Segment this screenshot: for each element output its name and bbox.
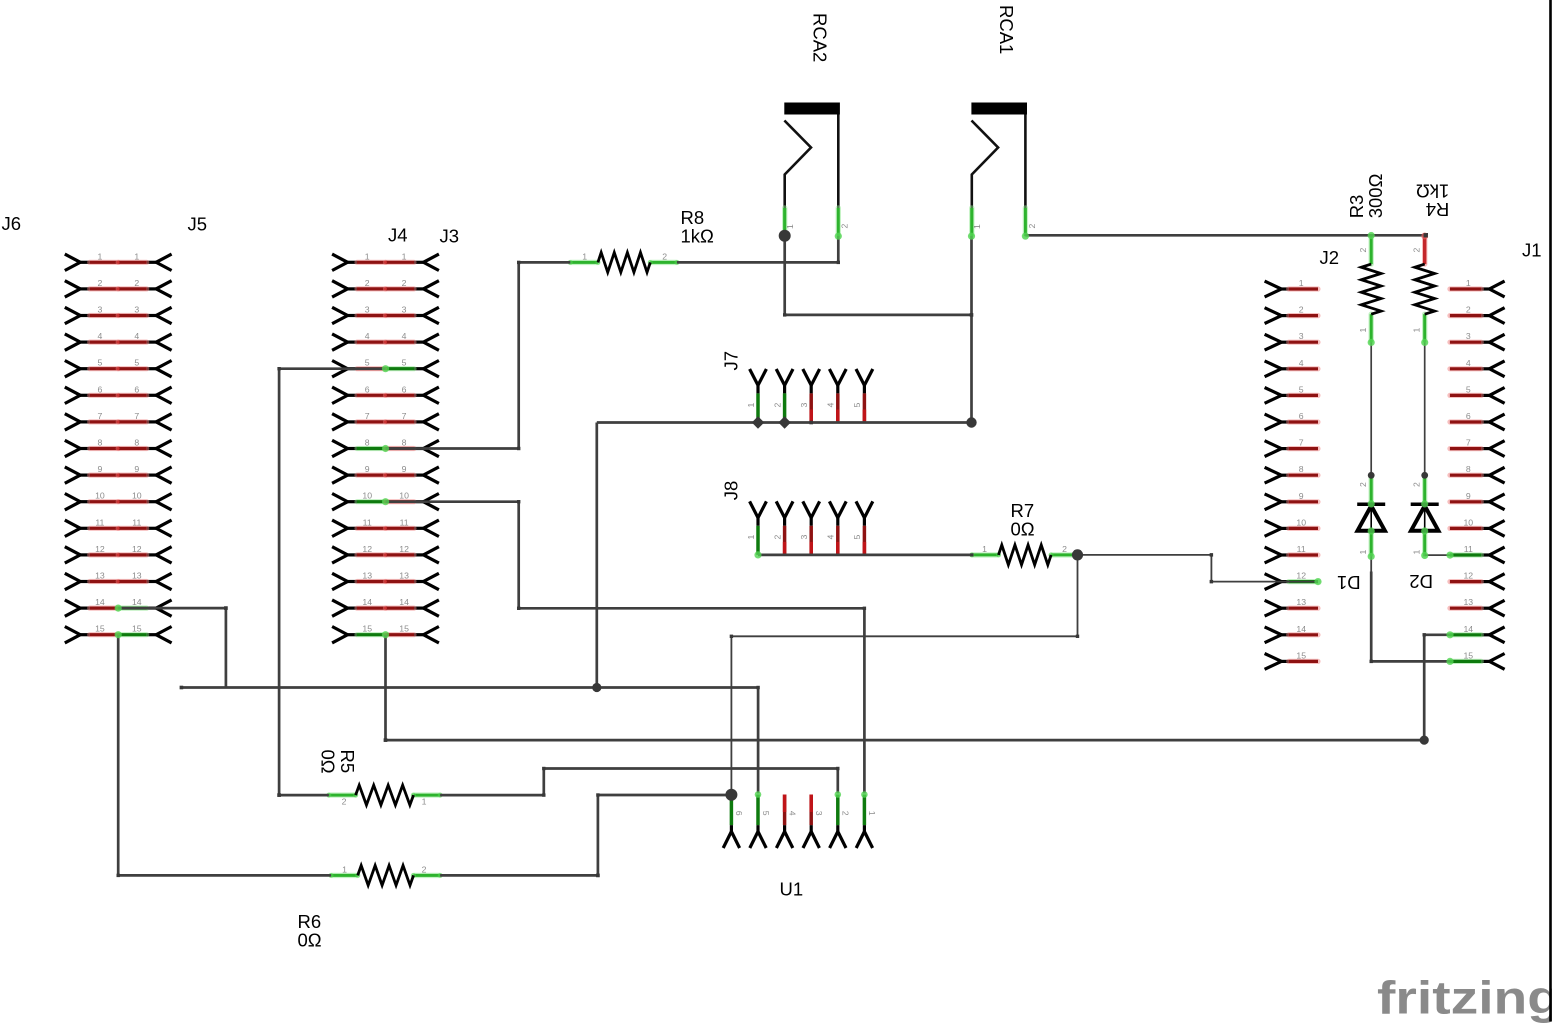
junction J7 pin2 diamond xyxy=(778,416,790,428)
svg-text:fritzing: fritzing xyxy=(1377,972,1552,1024)
svg-text:4: 4 xyxy=(1299,358,1304,368)
diode D1 xyxy=(1368,475,1373,504)
connector J6 pin 6 / connector J5 pin 6 xyxy=(65,387,81,403)
svg-text:5: 5 xyxy=(852,535,862,540)
svg-text:2: 2 xyxy=(840,224,850,229)
svg-text:2: 2 xyxy=(1412,482,1422,487)
svg-text:10: 10 xyxy=(399,491,409,501)
wire J5.15 to R6.1 xyxy=(118,635,331,876)
svg-text:12: 12 xyxy=(1463,571,1473,581)
connector J2 pin 12 xyxy=(1265,574,1282,590)
node wire end y314 xyxy=(970,313,974,317)
wire J3.8 to R8.1 xyxy=(386,262,571,448)
svg-text:11: 11 xyxy=(132,517,141,527)
svg-text:U1: U1 xyxy=(780,879,804,900)
svg-text:3: 3 xyxy=(1299,331,1304,341)
svg-text:9: 9 xyxy=(365,464,370,474)
green connection blobs xyxy=(382,365,389,372)
svg-text:4: 4 xyxy=(826,403,836,408)
svg-text:13: 13 xyxy=(1296,597,1306,607)
connector J1 pin 5 xyxy=(1489,388,1504,404)
connector J2 pin 14 xyxy=(1265,627,1282,643)
connector J2 pin 1 xyxy=(1265,281,1282,297)
thin wire R4.1 to D2.2 xyxy=(1424,342,1426,475)
svg-text:9: 9 xyxy=(402,464,407,474)
svg-text:13: 13 xyxy=(362,571,372,581)
wire R5.1 to U1.2 xyxy=(440,769,838,796)
svg-text:7: 7 xyxy=(402,411,407,421)
svg-text:1: 1 xyxy=(1466,278,1471,288)
svg-text:13: 13 xyxy=(132,571,142,581)
connector J6 pin 10 / connector J5 pin 10 xyxy=(65,494,81,510)
wire RCA1.1 down to J7 bus xyxy=(970,236,973,423)
ic U1 pin 6 xyxy=(723,832,739,849)
svg-text:10: 10 xyxy=(1296,517,1306,527)
node long687 right corner xyxy=(756,686,759,689)
connector J4 pin 2 / connector J3 pin 2 xyxy=(332,281,348,297)
svg-text:D2: D2 xyxy=(1409,571,1433,592)
svg-text:1: 1 xyxy=(97,251,102,261)
svg-text:1: 1 xyxy=(134,251,139,261)
wire D1.1 stub xyxy=(1370,556,1372,571)
svg-text:4: 4 xyxy=(97,331,102,341)
svg-text:6: 6 xyxy=(1466,411,1471,421)
svg-text:1: 1 xyxy=(342,864,347,874)
node J7 pin3 xyxy=(809,421,813,425)
connector J4 pin 5 / connector J3 pin 5 xyxy=(332,361,348,377)
svg-text:14: 14 xyxy=(362,597,372,607)
wire J3.5 to R5.2 xyxy=(279,369,385,795)
connector J4 pin 7 / connector J3 pin 7 xyxy=(332,414,348,430)
connector J4 pin 8 / connector J3 pin 8 xyxy=(332,440,348,456)
svg-text:1: 1 xyxy=(422,797,427,807)
svg-text:1: 1 xyxy=(1358,328,1368,333)
node wire end y687 left xyxy=(180,686,184,690)
svg-text:6: 6 xyxy=(1299,411,1304,421)
connector J7 pin 4 xyxy=(829,369,846,385)
svg-text:J6: J6 xyxy=(2,213,22,234)
svg-text:9: 9 xyxy=(1466,491,1471,501)
svg-text:8: 8 xyxy=(365,438,370,448)
connector J2 pin 5 xyxy=(1265,388,1282,404)
svg-text:RCA2: RCA2 xyxy=(810,13,831,62)
svg-text:2: 2 xyxy=(1466,305,1471,315)
svg-text:11: 11 xyxy=(95,517,104,527)
svg-text:3: 3 xyxy=(799,403,809,408)
window border right xyxy=(1549,0,1552,1022)
resistor R3 300ohm xyxy=(1368,235,1373,264)
svg-text:J4: J4 xyxy=(388,225,408,246)
connector J6 pin 15 / connector J5 pin 15 xyxy=(65,627,81,643)
connector J8 pin 2 xyxy=(776,501,793,517)
svg-text:8: 8 xyxy=(402,438,407,448)
svg-text:1: 1 xyxy=(785,224,795,229)
rca jack RCA2 xyxy=(784,103,840,115)
svg-text:13: 13 xyxy=(1463,597,1473,607)
ic U1 pin 2 xyxy=(830,832,846,849)
rca jack RCA1 xyxy=(971,103,1027,115)
svg-text:RCA1: RCA1 xyxy=(996,5,1017,54)
svg-text:5: 5 xyxy=(402,358,407,368)
svg-text:1: 1 xyxy=(746,535,756,540)
connector J4 pin 9 / connector J3 pin 9 xyxy=(332,467,348,483)
wire R8.2 to RCA2.2 xyxy=(677,236,838,262)
connector J6 pin 13 / connector J5 pin 13 xyxy=(65,573,81,589)
svg-text:4: 4 xyxy=(402,331,407,341)
diode D2 label xyxy=(1409,571,1433,592)
connector J6 pin 1 / connector J5 pin 1 xyxy=(65,254,81,270)
wire J5.14 right-down xyxy=(118,608,226,687)
resistor R6 0ohm xyxy=(331,873,358,878)
resistor R4 1k xyxy=(1422,235,1427,264)
connector J4 pin 3 / connector J3 pin 3 xyxy=(332,307,348,323)
svg-text:5: 5 xyxy=(852,403,862,408)
svg-text:1kΩ: 1kΩ xyxy=(1416,181,1450,202)
connector J6 pin 9 / connector J5 pin 9 xyxy=(65,467,81,483)
svg-text:13: 13 xyxy=(399,571,409,581)
junction U1 pin6 xyxy=(725,789,737,801)
connector J2 pin 10 xyxy=(1265,521,1282,537)
ic U1 pin 1 xyxy=(856,832,872,849)
connector J8 pin 5 xyxy=(856,501,873,517)
svg-text:6: 6 xyxy=(402,384,407,394)
connector J6 pin 4 / connector J5 pin 4 xyxy=(65,334,81,350)
svg-text:9: 9 xyxy=(1299,491,1304,501)
connector J6 pin 12 / connector J5 pin 12 xyxy=(65,547,81,563)
svg-text:14: 14 xyxy=(1296,624,1306,634)
svg-text:5: 5 xyxy=(365,358,370,368)
svg-text:7: 7 xyxy=(97,411,102,421)
ic U1 pin 4 xyxy=(776,832,792,849)
connector J1 pin 1 xyxy=(1489,281,1504,297)
wire D2.1 to J1.11 xyxy=(1425,554,1450,556)
svg-text:12: 12 xyxy=(132,544,142,554)
connector J7 pin 5 xyxy=(856,369,873,385)
connector J1 pin 7 xyxy=(1489,441,1504,457)
connector J4 pin 12 / connector J3 pin 12 xyxy=(332,547,348,563)
svg-text:15: 15 xyxy=(399,624,409,634)
svg-text:8: 8 xyxy=(97,438,102,448)
connector J2 pin 4 xyxy=(1265,361,1282,377)
connector J8 pin 3 xyxy=(803,501,820,517)
junction RCA2 pin1 xyxy=(779,230,791,242)
red blob R4 top xyxy=(1421,233,1428,240)
svg-text:2: 2 xyxy=(1062,544,1067,554)
wire RCA2.1 to RCA1.1 net xyxy=(785,236,972,315)
svg-text:3: 3 xyxy=(97,305,102,315)
wire J4.15 to J1.14 net xyxy=(386,635,1425,740)
junction R7 pin2 xyxy=(1072,549,1083,560)
connector J2 pin 11 xyxy=(1265,547,1282,563)
svg-text:5: 5 xyxy=(761,811,771,816)
svg-text:J7: J7 xyxy=(720,351,741,371)
svg-text:0Ω: 0Ω xyxy=(1011,519,1035,540)
connector J2 pin 8 xyxy=(1265,467,1282,483)
svg-text:11: 11 xyxy=(400,517,409,527)
connector J1 pin 13 xyxy=(1489,600,1504,616)
svg-text:1kΩ: 1kΩ xyxy=(681,226,715,247)
svg-text:2: 2 xyxy=(365,278,370,288)
svg-text:2: 2 xyxy=(662,251,667,261)
svg-text:J2: J2 xyxy=(1320,247,1340,268)
connector J8 pin 4 xyxy=(829,501,846,517)
connector J1 pin 11 xyxy=(1489,547,1504,563)
svg-text:2: 2 xyxy=(1358,248,1368,253)
wire RCA1.2 to R3 R4 tops xyxy=(1025,234,1425,237)
node J2.12 step corners xyxy=(1210,553,1213,556)
svg-text:8: 8 xyxy=(134,438,139,448)
svg-text:8: 8 xyxy=(1466,464,1471,474)
svg-text:13: 13 xyxy=(95,571,105,581)
svg-text:2: 2 xyxy=(1358,482,1368,487)
junction RCA1 pin1 on J7 bus xyxy=(966,417,976,427)
svg-text:5: 5 xyxy=(1466,384,1471,394)
svg-text:11: 11 xyxy=(1464,544,1473,554)
svg-text:7: 7 xyxy=(134,411,139,421)
connector J1 pin 2 xyxy=(1489,308,1504,324)
svg-text:11: 11 xyxy=(363,517,372,527)
svg-text:5: 5 xyxy=(97,358,102,368)
svg-text:1: 1 xyxy=(982,544,987,554)
connector J6 pin 2 / connector J5 pin 2 xyxy=(65,281,81,297)
wire J7 bus left drop xyxy=(595,423,598,688)
connector J2 pin 7 xyxy=(1265,441,1282,457)
connector J7 pin 1 xyxy=(750,369,767,385)
connector J1 pin 12 xyxy=(1489,574,1504,590)
svg-text:10: 10 xyxy=(132,491,142,501)
connector J6 pin 11 / connector J5 pin 11 xyxy=(65,520,81,536)
connector J1 pin 8 xyxy=(1489,467,1504,483)
svg-text:3: 3 xyxy=(799,535,809,540)
svg-text:2: 2 xyxy=(402,278,407,288)
svg-text:3: 3 xyxy=(1466,331,1471,341)
svg-text:15: 15 xyxy=(132,624,142,634)
svg-text:1: 1 xyxy=(582,251,587,261)
svg-text:J3: J3 xyxy=(440,226,460,247)
connector J1 pin 6 xyxy=(1489,414,1504,430)
wire J7 bus xyxy=(597,421,972,424)
connector J7 pin 3 xyxy=(803,369,820,385)
wire R7.2 to U1.6 xyxy=(731,555,1077,795)
wire long net y687 xyxy=(181,686,758,689)
connector J7 pin 2 xyxy=(776,369,793,385)
svg-text:2: 2 xyxy=(1027,224,1037,229)
svg-text:1: 1 xyxy=(867,811,877,816)
connector J6 pin 7 / connector J5 pin 7 xyxy=(65,414,81,430)
svg-text:7: 7 xyxy=(1299,438,1304,448)
svg-text:1: 1 xyxy=(1299,278,1304,288)
connector J4 pin 6 / connector J3 pin 6 xyxy=(332,387,348,403)
svg-text:3: 3 xyxy=(814,811,824,816)
svg-text:2: 2 xyxy=(342,797,347,807)
svg-text:2: 2 xyxy=(1412,248,1422,253)
U1 pin top blobs xyxy=(755,791,762,798)
resistor R4 value label xyxy=(1416,181,1450,220)
svg-text:D1: D1 xyxy=(1337,572,1361,593)
svg-text:14: 14 xyxy=(399,597,409,607)
connector J2 pin 9 xyxy=(1265,494,1282,510)
wire J8 bus xyxy=(758,554,972,557)
svg-text:4: 4 xyxy=(826,535,836,540)
connector J2 pin 15 xyxy=(1265,654,1282,670)
svg-text:15: 15 xyxy=(1463,650,1473,660)
svg-text:10: 10 xyxy=(95,491,105,501)
svg-text:J8: J8 xyxy=(720,481,741,501)
svg-text:2: 2 xyxy=(134,278,139,288)
svg-text:R3: R3 xyxy=(1346,195,1367,219)
svg-text:6: 6 xyxy=(97,384,102,394)
svg-text:2: 2 xyxy=(841,811,851,816)
svg-text:1: 1 xyxy=(402,251,407,261)
svg-text:4: 4 xyxy=(365,331,370,341)
connector J1 pin 3 xyxy=(1489,334,1504,350)
svg-text:12: 12 xyxy=(362,544,372,554)
node D2.2 top xyxy=(1421,472,1428,479)
svg-text:6: 6 xyxy=(365,384,370,394)
node R5 corner xyxy=(277,793,281,797)
svg-text:2: 2 xyxy=(772,403,782,408)
node J5.14 corner xyxy=(224,606,228,610)
diode D1 label xyxy=(1337,572,1361,593)
junction net y687 xyxy=(592,683,601,692)
svg-text:12: 12 xyxy=(95,544,105,554)
svg-text:5: 5 xyxy=(1299,384,1304,394)
connector J2 pin 3 xyxy=(1265,334,1282,350)
svg-text:J5: J5 xyxy=(188,214,208,235)
svg-text:9: 9 xyxy=(97,464,102,474)
svg-text:4: 4 xyxy=(134,331,139,341)
svg-text:12: 12 xyxy=(1296,571,1306,581)
svg-text:8: 8 xyxy=(1299,464,1304,474)
svg-text:11: 11 xyxy=(1297,544,1306,554)
connector J6 pin 8 / connector J5 pin 8 xyxy=(65,440,81,456)
svg-text:14: 14 xyxy=(95,597,105,607)
svg-text:300Ω: 300Ω xyxy=(1365,173,1386,218)
connector J4 pin 11 / connector J3 pin 11 xyxy=(332,520,348,536)
node R4 top square xyxy=(1424,233,1428,237)
connector J1 pin 9 xyxy=(1489,494,1504,510)
svg-text:7: 7 xyxy=(1466,438,1471,448)
wire J3.10 to U1.1 xyxy=(386,502,865,794)
wire J1.14 drop xyxy=(1424,635,1450,740)
wire R7.2 to J2.12 xyxy=(1078,555,1319,582)
svg-text:14: 14 xyxy=(132,597,142,607)
svg-text:1: 1 xyxy=(1412,550,1422,555)
svg-text:15: 15 xyxy=(95,624,105,634)
node R7.1 lead start xyxy=(970,553,973,556)
svg-text:2: 2 xyxy=(772,535,782,540)
connector J2 pin 6 xyxy=(1265,414,1282,430)
ic U1 pin 5 xyxy=(750,832,766,849)
connector J1 pin 15 xyxy=(1489,654,1504,670)
wire D1.1 to J1.15 xyxy=(1371,572,1450,662)
connector J4 pin 13 / connector J3 pin 13 xyxy=(332,573,348,589)
svg-text:1: 1 xyxy=(746,403,756,408)
connector J4 pin 10 / connector J3 pin 10 xyxy=(332,494,348,510)
svg-text:3: 3 xyxy=(134,305,139,315)
wire R6.2 to U1.6 xyxy=(440,795,731,875)
svg-text:4: 4 xyxy=(1466,358,1471,368)
svg-text:15: 15 xyxy=(1296,650,1306,660)
junction J1.14 net xyxy=(1420,736,1429,745)
svg-text:R5: R5 xyxy=(337,750,358,774)
svg-text:3: 3 xyxy=(402,305,407,315)
connector J8 pin 1 xyxy=(750,501,767,517)
node J4.15 corner xyxy=(384,738,388,742)
junction J7 pin1 diamond xyxy=(752,416,764,428)
resistor R7 0ohm xyxy=(972,552,999,557)
svg-text:1: 1 xyxy=(972,224,982,229)
thin wire R3.1 to D1.2 xyxy=(1370,342,1372,475)
connector J2 pin 13 xyxy=(1265,600,1282,616)
node R4 top xyxy=(1423,233,1428,238)
svg-text:3: 3 xyxy=(365,305,370,315)
ic U1 pin 3 xyxy=(803,832,819,849)
diode D2 xyxy=(1422,475,1427,504)
svg-text:15: 15 xyxy=(362,624,372,634)
svg-text:10: 10 xyxy=(362,491,372,501)
connector J6 pin 5 / connector J5 pin 5 xyxy=(65,361,81,377)
svg-text:1: 1 xyxy=(365,251,370,261)
connector J4 pin 4 / connector J3 pin 4 xyxy=(332,334,348,350)
connector J4 pin 15 / connector J3 pin 15 xyxy=(332,627,348,643)
connector J6 pin 3 / connector J5 pin 3 xyxy=(65,307,81,323)
connector J1 pin 14 xyxy=(1489,627,1504,643)
connector J4 pin 1 / connector J3 pin 1 xyxy=(332,254,348,270)
connector J2 pin 2 xyxy=(1265,308,1282,324)
connector J6 pin 14 / connector J5 pin 14 xyxy=(65,600,81,616)
svg-text:2: 2 xyxy=(97,278,102,288)
svg-text:12: 12 xyxy=(399,544,409,554)
wire down to U1.5 xyxy=(757,688,760,794)
svg-text:4: 4 xyxy=(787,811,797,816)
node D1.2 top xyxy=(1368,472,1375,479)
svg-text:1: 1 xyxy=(1412,328,1422,333)
svg-text:0Ω: 0Ω xyxy=(318,750,339,774)
svg-text:1: 1 xyxy=(1358,550,1368,555)
svg-text:6: 6 xyxy=(134,384,139,394)
svg-text:6: 6 xyxy=(734,811,744,816)
svg-text:7: 7 xyxy=(365,411,370,421)
svg-text:14: 14 xyxy=(1463,624,1473,634)
node R6 corner xyxy=(596,874,600,878)
svg-text:J1: J1 xyxy=(1522,240,1542,261)
svg-text:2: 2 xyxy=(1299,305,1304,315)
svg-text:5: 5 xyxy=(134,358,139,368)
resistor R5 0ohm xyxy=(329,792,356,797)
resistor R8 1k xyxy=(570,260,598,265)
svg-text:2: 2 xyxy=(422,864,427,874)
svg-text:0Ω: 0Ω xyxy=(298,930,322,951)
svg-text:9: 9 xyxy=(134,464,139,474)
svg-text:10: 10 xyxy=(1463,517,1473,527)
connector J1 pin 4 xyxy=(1489,361,1504,377)
connector J4 pin 14 / connector J3 pin 14 xyxy=(332,600,348,616)
connector J1 pin 10 xyxy=(1489,521,1504,537)
